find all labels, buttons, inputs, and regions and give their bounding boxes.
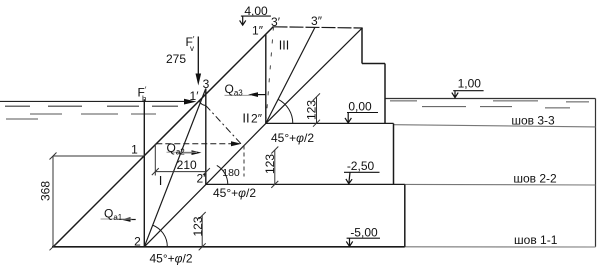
- F'h arrowhead: [184, 99, 197, 105]
- wall face x=404.8: [404, 184, 406, 246]
- svg-text:3″: 3″: [311, 14, 323, 28]
- Qa1 arrow: [126, 219, 136, 221]
- svg-text:1,00: 1,00: [458, 77, 482, 91]
- F'v force arrow: [197, 37, 199, 79]
- line B through heels 2-2'-2''-corner: [144, 28, 362, 247]
- svg-text:210: 210: [177, 158, 197, 172]
- svg-text:0,00: 0,00: [348, 99, 372, 113]
- wall step horizontal y=60: [362, 63, 385, 65]
- dimension 123 top (x=317.5): [316, 97, 318, 124]
- dimension 210: [155, 171, 206, 173]
- dimension 180 (vertical dashed at x=244): [243, 146, 245, 177]
- label Qa1: [101, 218, 132, 220]
- svg-text:шов 3-3: шов 3-3: [511, 113, 555, 127]
- svg-text:I: I: [159, 173, 163, 188]
- шов 1-1 extension right: [405, 246, 596, 248]
- svg-text:3′: 3′: [271, 15, 281, 29]
- wall right profile: top corner vertical: [361, 28, 363, 64]
- шов 2-2 extension right: [405, 183, 596, 186]
- line A from 2 to 3: [144, 89, 206, 247]
- arc at 2'': [278, 99, 293, 123]
- шов 1-1 bottom line (wall part): [52, 246, 405, 248]
- Qa3 arrow pointing left: [253, 94, 266, 96]
- arc at 2': [217, 165, 228, 184]
- svg-text:1″: 1″: [252, 24, 264, 38]
- svg-text:-2,50: -2,50: [347, 159, 375, 173]
- шов 3-3 line: [266, 122, 394, 124]
- svg-text:123: 123: [305, 100, 319, 120]
- calculation plane 3-2' (vertical x=205.8): [205, 89, 207, 185]
- svg-text:II: II: [242, 110, 249, 125]
- Qa2 arrow: [176, 152, 196, 154]
- ground line right (+1.00): [385, 98, 596, 100]
- svg-text:123: 123: [191, 216, 205, 236]
- svg-text:III: III: [279, 39, 289, 53]
- svg-text:2″: 2″: [251, 111, 263, 125]
- dimension 123 bottom (x=199): [201, 216, 203, 247]
- svg-text:-5,00: -5,00: [350, 226, 378, 240]
- svg-text:1′: 1′: [190, 89, 200, 103]
- шов 3-3 extension right: [394, 125, 596, 127]
- Qa2 gray underline: [167, 151, 198, 153]
- svg-text:45°+φ/2: 45°+φ/2: [271, 131, 314, 145]
- slip line 2''-3'': [266, 28, 315, 124]
- svg-text:123: 123: [263, 154, 277, 174]
- small arc at node below 3: [199, 101, 205, 105]
- water line left / F'h action line: [0, 100, 192, 102]
- dashed action line y=143.8 with right arrow: [156, 143, 236, 145]
- right border vertical: [595, 99, 597, 247]
- svg-text:2: 2: [134, 235, 141, 249]
- шов 2-2 line: [206, 183, 405, 185]
- wall face x=393.5: [393, 123, 395, 184]
- svg-text:2′: 2′: [197, 172, 207, 186]
- svg-text:45°+φ/2: 45°+φ/2: [150, 252, 193, 266]
- Qa3 gray underline: [225, 94, 253, 96]
- svg-text:шов 2-2: шов 2-2: [513, 172, 557, 186]
- water dashes left row2: [30, 113, 156, 115]
- calculation plane 1-2 (vertical x=144.3): [143, 99, 145, 247]
- wall top dashed line (+4.00): [274, 27, 363, 28]
- svg-text:275: 275: [166, 52, 186, 66]
- dashed line 3'-2'': [266, 27, 274, 124]
- arc at 2: [153, 225, 168, 247]
- water dashes right row1: [390, 101, 589, 102]
- svg-text:180: 180: [222, 167, 240, 179]
- dimension 123 middle (x=273.6): [274, 150, 276, 184]
- dash-dot line from 1' at 45deg: [206, 105, 241, 144]
- svg-text:368: 368: [39, 181, 53, 201]
- svg-text:45°+φ/2: 45°+φ/2: [213, 186, 256, 200]
- svg-text:шов 1-1: шов 1-1: [514, 233, 558, 247]
- water dashes right row2: [422, 107, 570, 108]
- dimension 368: vertical line + ticks + extension: [52, 156, 54, 247]
- main slip diagonal 45deg to 3': [53, 27, 274, 248]
- svg-text:1: 1: [131, 143, 138, 157]
- water dashes left row3: [6, 118, 38, 120]
- svg-text:3: 3: [203, 77, 210, 91]
- water dashes left row1: [5, 105, 178, 107]
- calculation plane 1''-2'' (vertical x=265.5): [265, 34, 267, 123]
- wall face x=385: [384, 64, 386, 124]
